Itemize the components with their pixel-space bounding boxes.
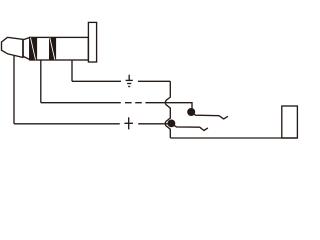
switch lever A [191,112,228,119]
wire row2 left segment [41,102,121,104]
wire row3 left segment [14,123,120,125]
wire row2 break dash 2 [135,102,142,104]
ground bus bottom horizontal [170,137,297,139]
plug P1 insulator band 2 [49,38,56,60]
plug P1 insulator band 1 [30,38,37,60]
wire row3 right segment [138,123,170,125]
wire ring-contact vertical [40,60,42,103]
terminal block rectangle [282,106,298,138]
ground bus vertical with crossover hops [165,81,170,138]
plug P1 barrel (sleeve body) [30,37,89,60]
wire row2 break dash 1 [125,102,132,104]
switch contact dot A [187,108,195,116]
wire row1 right segment [138,80,170,82]
ground symbol [126,75,133,87]
wire sleeve-contact vertical [71,60,73,81]
plug P1 flange [88,22,96,62]
wire tip-contact vertical [13,56,15,124]
switch contact dot B [168,120,176,128]
switch lever B [171,123,208,130]
plug P1 tip [2,37,23,57]
wire row2 right segment to contact [145,103,192,109]
plug P1 collar [23,38,30,60]
plus polarity symbol [124,117,133,129]
wire row1 left segment [72,80,121,82]
